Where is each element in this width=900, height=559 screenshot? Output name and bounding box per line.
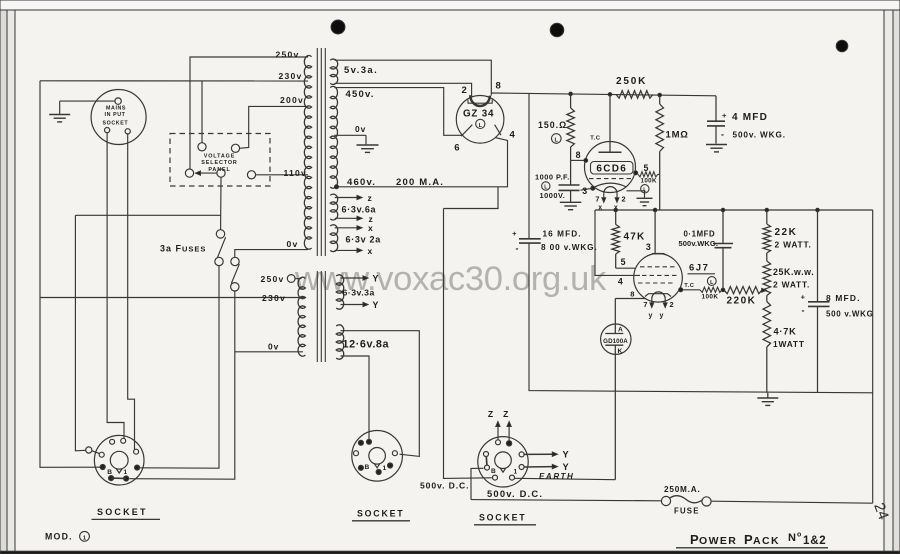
capacitor 0.1MFD (722, 210, 724, 243)
svg-text:P: P (690, 532, 699, 547)
wire socket jumper leg (471, 468, 484, 499)
right socket pins (496, 440, 501, 445)
wire bottom hv return line (471, 500, 662, 501)
svg-text:4: 4 (510, 130, 516, 141)
svg-text:6: 6 (454, 143, 459, 154)
svg-text:16 MFD.: 16 MFD. (543, 230, 582, 239)
svg-text:T.C: T.C (684, 283, 695, 289)
resistor 22K 2WATT (766, 210, 768, 224)
svg-text:B: B (491, 468, 496, 475)
tap arrows z z (335, 197, 358, 199)
right socket Z arrows (497, 426, 499, 440)
T1 secondary 6.3v6a winding (330, 194, 338, 220)
wire box right edge (872, 210, 874, 503)
resistor 4.7K 1WATT (766, 296, 768, 302)
6J7 heater bump (652, 292, 665, 299)
fuse 250MA (661, 496, 670, 505)
svg-text:-: - (516, 244, 519, 254)
wire mains pin N down to socket (128, 134, 135, 450)
6CD6 cathode ground wire (627, 191, 645, 198)
svg-text:z: z (368, 193, 372, 203)
svg-text:Y: Y (373, 274, 379, 284)
svg-text:N: N (788, 532, 796, 544)
svg-text:Y: Y (373, 300, 379, 310)
svg-text:100K: 100K (641, 178, 658, 185)
svg-text:USES: USES (182, 245, 206, 254)
svg-text:L: L (555, 138, 559, 144)
svg-text:1MΩ: 1MΩ (666, 130, 689, 141)
transformer T2 core (316, 271, 318, 362)
svg-text:450v.: 450v. (346, 89, 375, 100)
svg-text:150.Ω: 150.Ω (538, 120, 567, 130)
svg-text:SOCKET: SOCKET (479, 513, 526, 523)
6CD6 cathode (594, 183, 627, 187)
svg-text:4 MFD: 4 MFD (732, 112, 768, 123)
wire left rail (40, 81, 100, 468)
svg-text:250K: 250K (616, 76, 647, 87)
svg-text:500v. WKG.: 500v. WKG. (733, 131, 786, 140)
svg-text:FUSE: FUSE (674, 507, 700, 516)
wire output node top rail (595, 209, 873, 211)
6CD6 heater bump (604, 187, 617, 194)
svg-text:Y: Y (563, 450, 569, 460)
svg-text:SOCKET: SOCKET (357, 509, 404, 519)
T1 tap 460v junction (335, 185, 339, 189)
voltage selector panel dashed box (170, 134, 270, 187)
selector pivot terminal (185, 169, 193, 177)
circled L 100K (641, 185, 649, 193)
wire mains pin L down to socket (107, 133, 124, 439)
resistor 100K grid stopper (683, 289, 701, 291)
svg-text:GZ 34: GZ 34 (463, 109, 494, 120)
ground at 450v centre tap (357, 144, 379, 146)
svg-text:+: + (801, 293, 806, 302)
svg-text:2 WATT.: 2 WATT. (773, 280, 810, 290)
rectifier valve GZ34 envelope (456, 96, 504, 144)
ground below 4MFD (706, 144, 727, 146)
svg-text:SOCKET: SOCKET (97, 507, 148, 517)
svg-text:-: - (721, 130, 725, 140)
6CD6 grid pin 3 (591, 186, 595, 190)
svg-text:5: 5 (621, 257, 626, 267)
6J7 heater pins 7 2 arrows (651, 299, 653, 305)
svg-text:+: + (722, 111, 727, 120)
T1 secondary 6.3v2a winding (330, 225, 338, 252)
svg-text:8 MFD.: 8 MFD. (826, 293, 861, 303)
wire 450v top tap to GZ34 pin 6 (335, 88, 463, 136)
svg-text:1: 1 (383, 465, 387, 472)
svg-text:6J7: 6J7 (689, 263, 709, 274)
wire 6J7 pin3 stem (654, 210, 656, 254)
wire GD100A cathode down to earth line (614, 345, 616, 480)
svg-text:y: y (649, 313, 653, 320)
registration dot 2 (550, 23, 564, 37)
svg-text:VOLTAGE: VOLTAGE (204, 154, 236, 160)
mains socket pin N (125, 129, 130, 134)
svg-text:47K: 47K (624, 232, 646, 243)
earth pin marker small circle (86, 447, 92, 453)
svg-text:EARTH: EARTH (539, 472, 574, 481)
pentode 6CD6 envelope (585, 142, 636, 193)
wire live junction y215 (75, 214, 220, 216)
svg-text:6·3v.6a: 6·3v.6a (342, 205, 377, 215)
resistor 220K (724, 287, 762, 294)
output socket left (94, 435, 144, 485)
svg-text:Z: Z (503, 409, 508, 419)
resistor 25K WW 2WATT (766, 253, 768, 261)
svg-text:4·7K: 4·7K (774, 327, 797, 337)
wire 250v tap to selector pivot (190, 57, 308, 169)
6CD6 anode bar (599, 151, 622, 153)
svg-text:3: 3 (646, 242, 651, 252)
svg-text:6CD6: 6CD6 (596, 164, 627, 175)
circled L 1000pf (542, 182, 550, 190)
svg-text:500 v.WKG: 500 v.WKG (826, 310, 874, 319)
mains input socket (91, 90, 146, 145)
svg-text:8: 8 (576, 150, 581, 160)
svg-text:2: 2 (670, 300, 674, 309)
T2 secondary 12.6v winding (336, 325, 344, 359)
wire selector 110v to tap (256, 174, 308, 176)
6CD6 pin 8 screen wire (571, 159, 586, 161)
svg-text:0v: 0v (268, 342, 279, 352)
svg-text:1WATT: 1WATT (773, 339, 805, 349)
svg-text:GD100A: GD100A (603, 338, 628, 345)
resistor 150 ohm (570, 94, 572, 108)
svg-text:Y: Y (563, 462, 569, 472)
svg-text:250M.A.: 250M.A. (664, 485, 701, 494)
capacitor 8 MFD (817, 210, 819, 302)
svg-text:T.C: T.C (590, 136, 601, 142)
svg-text:L: L (479, 123, 483, 129)
svg-text:0v: 0v (355, 124, 366, 134)
wire fuse B to socket pin (129, 291, 235, 479)
T2 secondary 6.3v3a winding (336, 275, 344, 309)
svg-text:MOD.: MOD. (45, 532, 73, 542)
output socket right (478, 437, 528, 487)
T1 primary tap 250v (307, 56, 309, 58)
svg-text:22K: 22K (775, 227, 798, 238)
svg-text:12·6v.8a: 12·6v.8a (343, 339, 390, 351)
6J7 anode bar (652, 253, 665, 255)
right socket Y arrows (524, 453, 553, 455)
wire 5v top tap to GZ34 pin 8 (335, 60, 492, 95)
wire 5v bottom tap to GZ34 pin 2 (335, 83, 472, 96)
svg-text:ACK: ACK (753, 535, 780, 547)
capacitor 16 MFD (519, 238, 541, 240)
mains socket top pin (115, 98, 121, 104)
svg-text:4: 4 (618, 277, 623, 287)
svg-text:500v.WKG.: 500v.WKG. (679, 239, 719, 248)
svg-text:OWER: OWER (699, 535, 737, 547)
svg-text:500v. D.C.: 500v. D.C. (420, 481, 469, 491)
registration dot 3 (836, 40, 848, 52)
6CD6 name box (591, 162, 634, 175)
resistor 1M (659, 95, 661, 104)
6CD6 pin 5 and 100K pot (634, 171, 638, 175)
svg-text:8: 8 (630, 290, 634, 299)
wire 230v mains line top (40, 80, 308, 82)
mains socket pin L (105, 128, 110, 133)
svg-text:110v: 110v (284, 168, 307, 178)
wire 12.6v top tap loop to socket (341, 331, 420, 457)
wire earth line to socket (515, 478, 616, 479)
wire mains top pin to earth (60, 100, 115, 102)
svg-text:-: - (802, 306, 805, 316)
GZ34 circled L (476, 119, 485, 128)
svg-text:B: B (107, 469, 112, 476)
wire 1M bottom to lower rail (659, 152, 661, 211)
svg-text:3a F: 3a F (160, 244, 182, 254)
left socket pins (110, 439, 115, 444)
svg-text:200v: 200v (280, 95, 304, 105)
circled L 150ohm (552, 134, 562, 144)
wire fuse A to socket pin (140, 266, 219, 469)
svg-text:K: K (618, 348, 623, 355)
selector arm terminal (217, 169, 225, 177)
selector terminal 110v (247, 171, 255, 179)
svg-text:25K.w.w.: 25K.w.w. (773, 267, 814, 277)
6J7 pin 8 wire (615, 298, 646, 300)
wire 460v tap to GZ34 pin 4 (337, 138, 508, 187)
svg-text:IN PUT: IN PUT (105, 112, 126, 118)
tap arrows x x (335, 227, 358, 229)
wire selector 200v to tap (240, 106, 309, 148)
svg-text:8 00 v.WKG.: 8 00 v.WKG. (541, 243, 598, 252)
ground on cathode rail (767, 393, 769, 398)
svg-text:7: 7 (595, 195, 599, 204)
svg-text:+: + (512, 229, 517, 238)
6CD6 top cap wire (609, 94, 611, 152)
svg-text:230v: 230v (262, 293, 286, 303)
fuse A (216, 230, 224, 238)
selector terminal 200v (231, 144, 239, 152)
svg-text:5v.3a.: 5v.3a. (344, 65, 378, 76)
T1 0v centre tap (334, 134, 366, 136)
6J7 cathode (645, 294, 671, 297)
wire 12.6v bottom tap to socket (341, 356, 370, 445)
svg-text:Z: Z (488, 409, 493, 419)
svg-text:230v: 230v (279, 71, 303, 81)
wire primary 0v to fuse B (235, 250, 308, 258)
svg-text:250v: 250v (261, 274, 285, 284)
svg-text:2: 2 (622, 195, 626, 204)
capacitor 4 MFD (715, 96, 717, 121)
6CD6 grid dashed (589, 178, 632, 180)
circled L 6J7 (707, 277, 716, 286)
wire lower primary 0v (235, 351, 303, 353)
svg-text:y: y (660, 313, 664, 320)
svg-text:B: B (365, 464, 370, 471)
output socket middle (352, 431, 403, 482)
resistor 250K (616, 91, 653, 99)
svg-text:1000V.: 1000V. (540, 191, 566, 200)
T1 secondary 450v winding (330, 86, 337, 188)
6J7 grids dashed (640, 266, 677, 268)
transformer T1 core (316, 48, 318, 256)
svg-text:3: 3 (582, 186, 587, 196)
wire 6J7 pin5 (616, 267, 635, 269)
svg-text:x: x (368, 223, 373, 233)
ground chassis earth at mains (49, 114, 70, 116)
svg-text:8: 8 (496, 81, 501, 92)
wire selector arm to fuse A (220, 177, 222, 229)
T1 secondary 5v winding (330, 59, 338, 84)
svg-text:P: P (744, 532, 753, 547)
metal rectifier GD100A (614, 299, 616, 334)
T2 250v open terminal (295, 278, 301, 280)
wire live down-left to socket earth pin (75, 215, 85, 450)
tap arrows Y Y (341, 277, 365, 279)
middle socket pins (367, 439, 372, 444)
svg-text:o: o (797, 532, 801, 539)
GZ34 anode diagonals (461, 125, 472, 137)
transformer T2 primary winding (298, 277, 305, 356)
svg-text:2 WATT.: 2 WATT. (775, 240, 812, 250)
svg-text:MAINS: MAINS (106, 106, 126, 112)
wire box left edge to 6J7 pin4 (595, 210, 640, 275)
fuse B (231, 257, 239, 265)
svg-text:6·3v 2a: 6·3v 2a (346, 235, 382, 245)
wire selector 230v up (201, 81, 203, 143)
svg-text:SOCKET: SOCKET (103, 121, 129, 127)
svg-text:1: 1 (124, 469, 128, 476)
bottom scan edge (0, 551, 900, 554)
selector arm with arrowhead (198, 172, 218, 174)
svg-text:6·3v.3a: 6·3v.3a (343, 288, 375, 298)
resistor 47K (615, 210, 617, 225)
svg-text:1: 1 (514, 469, 518, 476)
svg-text:A: A (618, 327, 623, 334)
capacitor 1000PF (570, 160, 572, 184)
6CD6 heater pins 7 2 with arrows (603, 193, 605, 199)
wire 460v node to output box (444, 187, 499, 209)
selector terminal 230v (198, 143, 206, 151)
svg-text:x: x (368, 246, 373, 256)
svg-text:1000 P.F.: 1000 P.F. (535, 173, 570, 182)
ground below 1000pf (560, 201, 582, 203)
svg-text:1&2: 1&2 (803, 535, 827, 547)
transformer T1 primary winding (304, 56, 311, 250)
wire 500v dc feed down to socket (444, 209, 492, 479)
svg-text:220K: 220K (727, 296, 757, 307)
svg-text:2: 2 (462, 85, 467, 96)
svg-text:7: 7 (643, 300, 647, 309)
GZ34 filament arc (470, 95, 490, 106)
wire HT rail B+ (491, 93, 716, 96)
svg-text:0v: 0v (287, 239, 299, 249)
svg-text:SELECTOR: SELECTOR (201, 160, 237, 166)
wire main left rail lower (529, 243, 873, 393)
pentode 6J7 envelope (634, 253, 683, 302)
svg-text:100K: 100K (702, 293, 719, 300)
svg-text:500v. D.C.: 500v. D.C. (487, 488, 543, 499)
registration dot 1 (331, 20, 345, 34)
wire HT rail down main left rail (528, 94, 530, 239)
svg-text:0·1MFD: 0·1MFD (684, 230, 716, 239)
svg-text:250v: 250v (276, 50, 300, 60)
wire lower primary 230v line (40, 297, 306, 299)
